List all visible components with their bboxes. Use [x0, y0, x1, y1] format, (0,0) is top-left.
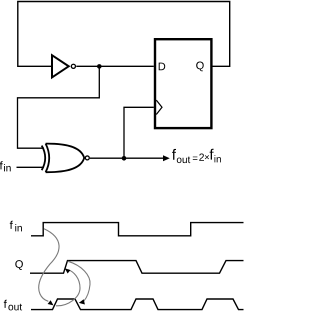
node label f_in: [0, 161, 3, 169]
junction node after inverter: [97, 64, 102, 69]
pin label Q: [196, 62, 204, 72]
clock input triangle: [156, 100, 162, 114]
arrow f_out rise to Q rise: [56, 270, 80, 306]
XNOR gate U2 body: [46, 144, 50, 173]
waveform Q: [30, 261, 244, 274]
XNOR gate U2 input arc: [42, 146, 46, 171]
XNOR output bubble: [85, 156, 89, 160]
D flip-flop U3 body: [155, 39, 211, 128]
waveform f_out: [31, 299, 244, 310]
waveform label Q: [15, 260, 23, 270]
arrowhead at f_out label: [163, 155, 170, 161]
wire inverter output to D input: [76, 65, 154, 67]
wire XNOR output to f_out arrow: [90, 157, 164, 159]
arrow Q rise to f_out fall: [68, 261, 90, 301]
wire junction up to clock input: [124, 107, 154, 158]
waveform label f_in: [10, 221, 13, 229]
wire feedback loop from Q output around top to inverter input: [18, 2, 230, 67]
waveform label f_out: [4, 300, 7, 308]
inverter output bubble: [71, 64, 75, 68]
waveform f_in: [31, 223, 244, 236]
inverter U1: [52, 55, 69, 77]
label f_out = 2 x f_in: [172, 149, 176, 160]
wire f_in to XOR bottom input: [17, 166, 45, 168]
junction node on output wire: [122, 156, 127, 161]
arrow f_in rise to f_out rise: [39, 229, 59, 302]
pin label D: [159, 63, 166, 71]
wire junction down and left to XOR top input: [18, 66, 100, 148]
